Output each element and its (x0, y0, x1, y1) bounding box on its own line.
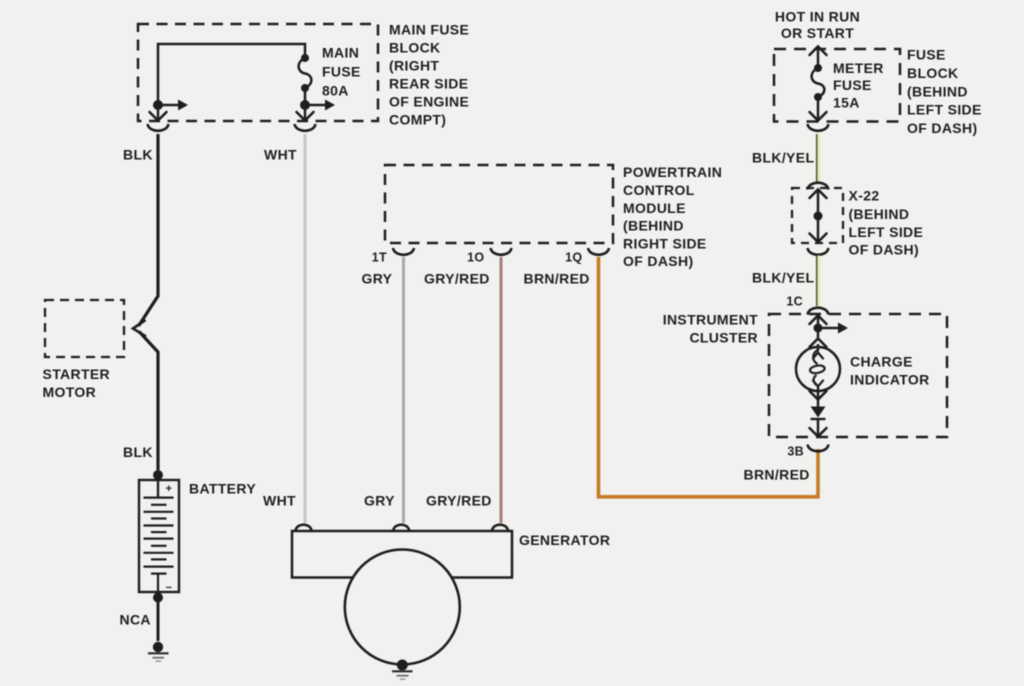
svg-text:NCA: NCA (120, 612, 151, 628)
svg-text:(BEHIND: (BEHIND (623, 218, 684, 234)
svg-text:OF DASH): OF DASH) (849, 242, 919, 258)
svg-text:BATTERY: BATTERY (189, 481, 256, 497)
svg-text:BLK: BLK (123, 147, 153, 163)
svg-text:BRN/RED: BRN/RED (524, 271, 590, 287)
svg-text:15A: 15A (833, 95, 860, 111)
svg-text:FUSE: FUSE (907, 47, 946, 63)
svg-text:1Q: 1Q (565, 251, 582, 265)
svg-text:(BEHIND: (BEHIND (907, 84, 968, 100)
svg-text:RIGHT SIDE: RIGHT SIDE (623, 236, 707, 252)
svg-text:BLK: BLK (123, 444, 153, 460)
svg-text:STARTER: STARTER (43, 366, 111, 382)
svg-text:OF ENGINE: OF ENGINE (389, 94, 469, 110)
svg-text:CHARGE: CHARGE (850, 354, 913, 370)
svg-text:LEFT SIDE: LEFT SIDE (849, 224, 924, 240)
svg-text:BLOCK: BLOCK (389, 40, 441, 56)
svg-text:BLOCK: BLOCK (907, 65, 959, 81)
svg-text:MAIN: MAIN (322, 45, 359, 61)
svg-text:MOTOR: MOTOR (43, 384, 97, 400)
svg-text:MAIN FUSE: MAIN FUSE (389, 22, 469, 38)
svg-text:HOT IN RUN: HOT IN RUN (775, 9, 860, 25)
svg-text:BLK/YEL: BLK/YEL (752, 150, 814, 166)
svg-text:(BEHIND: (BEHIND (849, 206, 910, 222)
svg-text:GRY: GRY (362, 271, 393, 287)
svg-text:OF DASH): OF DASH) (623, 253, 693, 269)
svg-text:WHT: WHT (263, 493, 296, 509)
svg-text:CONTROL: CONTROL (623, 182, 695, 198)
svg-text:INDICATOR: INDICATOR (850, 372, 930, 388)
svg-text:X-22: X-22 (849, 188, 880, 204)
svg-text:1O: 1O (467, 251, 484, 265)
svg-text:FUSE: FUSE (322, 64, 361, 80)
svg-text:1C: 1C (786, 295, 803, 309)
svg-text:POWERTRAIN: POWERTRAIN (623, 164, 722, 180)
svg-text:METER: METER (833, 60, 884, 76)
svg-text:MODULE: MODULE (623, 200, 686, 216)
svg-text:(RIGHT: (RIGHT (389, 58, 439, 74)
svg-text:LEFT SIDE: LEFT SIDE (907, 102, 982, 118)
svg-text:REAR SIDE: REAR SIDE (389, 76, 468, 92)
svg-text:GRY: GRY (364, 493, 395, 509)
svg-text:GRY/RED: GRY/RED (424, 271, 490, 287)
svg-text:CLUSTER: CLUSTER (689, 330, 758, 346)
svg-text:1T: 1T (372, 251, 387, 265)
svg-text:BRN/RED: BRN/RED (744, 467, 810, 483)
svg-text:80A: 80A (322, 83, 349, 99)
svg-text:FUSE: FUSE (833, 77, 872, 93)
svg-text:GENERATOR: GENERATOR (519, 532, 610, 548)
svg-text:−: − (166, 582, 173, 594)
svg-text:INSTRUMENT: INSTRUMENT (663, 312, 758, 328)
svg-text:OR START: OR START (781, 25, 854, 41)
svg-text:COMPT): COMPT) (389, 112, 446, 128)
svg-text:GRY/RED: GRY/RED (426, 493, 492, 509)
svg-text:3B: 3B (787, 445, 804, 459)
svg-text:OF DASH): OF DASH) (907, 120, 977, 136)
svg-text:WHT: WHT (264, 147, 297, 163)
svg-text:+: + (166, 483, 173, 495)
svg-text:BLK/YEL: BLK/YEL (752, 270, 814, 286)
